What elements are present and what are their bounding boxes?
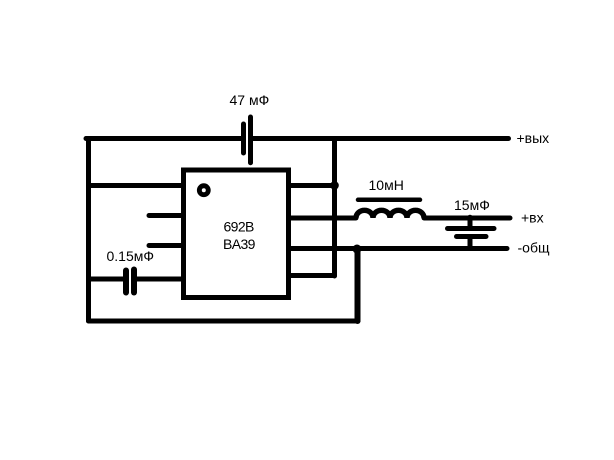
svg-text:-общ: -общ xyxy=(518,240,550,256)
svg-text:BA39: BA39 xyxy=(223,236,256,252)
svg-text:10мН: 10мН xyxy=(369,177,404,193)
svg-text:+вх: +вх xyxy=(521,210,544,226)
svg-text:0.15мФ: 0.15мФ xyxy=(107,248,155,264)
svg-text:+вых: +вых xyxy=(517,130,550,146)
svg-text:47 мФ: 47 мФ xyxy=(230,92,270,108)
svg-text:15мФ: 15мФ xyxy=(454,197,490,213)
svg-text:692В: 692В xyxy=(224,219,255,235)
